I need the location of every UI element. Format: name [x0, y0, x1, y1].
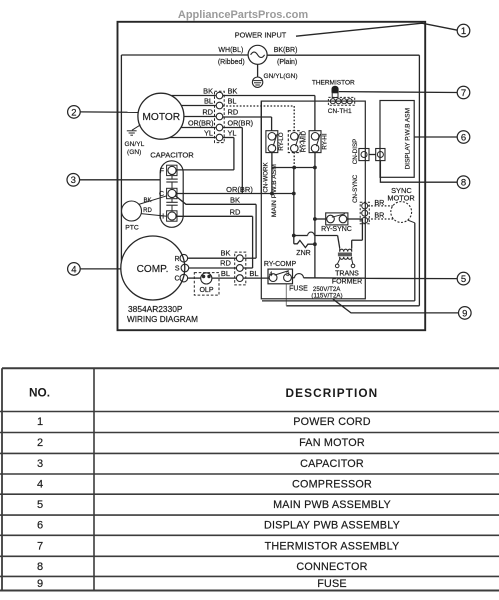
svg-text:H: H	[159, 214, 164, 221]
svg-text:CN-TH1: CN-TH1	[328, 108, 352, 115]
svg-text:FAN MOTOR: FAN MOTOR	[299, 437, 365, 449]
svg-text:ZNR: ZNR	[296, 250, 310, 257]
svg-text:BL: BL	[221, 269, 230, 278]
svg-text:AppliancePartsPros.com: AppliancePartsPros.com	[178, 9, 308, 21]
svg-text:COMP.: COMP.	[137, 264, 169, 275]
svg-text:FUSE: FUSE	[289, 285, 308, 292]
svg-text:POWER CORD: POWER CORD	[293, 416, 371, 428]
svg-text:RD: RD	[202, 107, 213, 116]
svg-text:4: 4	[71, 264, 76, 275]
svg-text:8: 8	[37, 561, 43, 573]
svg-text:CAPACITOR: CAPACITOR	[300, 458, 364, 470]
svg-text:7: 7	[461, 88, 466, 99]
svg-text:BK: BK	[143, 198, 151, 204]
svg-text:6: 6	[461, 132, 466, 143]
svg-text:MOTOR: MOTOR	[142, 112, 180, 123]
svg-text:POWER INPUT: POWER INPUT	[235, 31, 287, 40]
svg-text:4: 4	[37, 479, 43, 491]
svg-text:BR: BR	[374, 198, 384, 207]
svg-text:NO.: NO.	[29, 386, 50, 400]
svg-text:S: S	[175, 266, 180, 273]
svg-text:MAIN PWB ASSEMBLY: MAIN PWB ASSEMBLY	[273, 499, 391, 511]
svg-text:3: 3	[71, 175, 76, 186]
svg-text:FUSE: FUSE	[317, 578, 347, 590]
svg-text:R: R	[174, 256, 179, 263]
svg-text:1: 1	[461, 26, 466, 37]
svg-text:CONNECTOR: CONNECTOR	[296, 561, 367, 573]
svg-text:RD: RD	[143, 208, 152, 214]
svg-text:OR(BR): OR(BR)	[228, 118, 254, 127]
svg-text:(Plain): (Plain)	[277, 59, 297, 66]
svg-text:CN-WORK: CN-WORK	[262, 162, 269, 193]
svg-text:3854AR2330P: 3854AR2330P	[128, 304, 183, 314]
svg-text:RY-MID: RY-MID	[301, 130, 308, 152]
svg-text:GN/YL: GN/YL	[125, 141, 145, 148]
svg-text:DISPLAY PWB ASSEMBLY: DISPLAY PWB ASSEMBLY	[264, 520, 400, 532]
svg-text:PTC: PTC	[125, 225, 139, 232]
svg-text:THERMISTOR: THERMISTOR	[312, 79, 355, 86]
svg-text:F: F	[160, 168, 164, 175]
svg-text:GN/YL(GN): GN/YL(GN)	[264, 73, 298, 80]
svg-text:5: 5	[37, 499, 43, 511]
svg-text:BK: BK	[220, 249, 230, 258]
svg-text:MOTOR: MOTOR	[387, 193, 414, 202]
svg-text:RY-SYNC: RY-SYNC	[321, 226, 352, 233]
svg-text:BL: BL	[228, 96, 237, 105]
svg-text:BL: BL	[204, 96, 213, 105]
svg-text:6: 6	[37, 520, 43, 532]
svg-text:RD: RD	[228, 107, 239, 116]
svg-text:7: 7	[37, 540, 43, 552]
svg-text:BR: BR	[374, 210, 384, 219]
svg-text:CAPACITOR: CAPACITOR	[150, 150, 194, 159]
svg-text:5: 5	[461, 274, 466, 285]
svg-text:(GN): (GN)	[127, 149, 141, 156]
svg-text:YL: YL	[228, 128, 237, 137]
svg-text:OLP: OLP	[199, 287, 213, 294]
svg-text:RY-LO: RY-LO	[278, 132, 285, 150]
svg-text:BK: BK	[230, 195, 240, 204]
svg-text:3: 3	[37, 458, 43, 470]
svg-text:BK: BK	[228, 86, 238, 95]
svg-text:CN-DISP: CN-DISP	[352, 139, 359, 164]
svg-text:BK: BK	[203, 86, 213, 95]
svg-text:1: 1	[37, 416, 43, 428]
svg-text:BK(BR): BK(BR)	[274, 47, 298, 54]
svg-text:9: 9	[37, 578, 43, 590]
svg-text:9: 9	[462, 308, 467, 319]
svg-text:(115V/T2A): (115V/T2A)	[311, 293, 342, 300]
svg-text:FORMER: FORMER	[332, 278, 362, 285]
svg-text:2: 2	[71, 107, 76, 118]
svg-text:BL: BL	[249, 269, 258, 278]
svg-text:C: C	[174, 276, 179, 283]
svg-text:DESCRIPTION: DESCRIPTION	[286, 386, 379, 400]
svg-text:(Ribbed): (Ribbed)	[218, 59, 245, 66]
svg-text:RY-HI: RY-HI	[322, 133, 329, 149]
svg-text:2: 2	[37, 437, 43, 449]
svg-text:TRANS: TRANS	[335, 270, 359, 277]
svg-text:RD: RD	[230, 207, 241, 216]
svg-text:DISPLAY P.W.B ASM: DISPLAY P.W.B ASM	[404, 108, 411, 169]
svg-text:COMPRESSOR: COMPRESSOR	[292, 479, 372, 491]
svg-text:OR(BR): OR(BR)	[226, 185, 253, 194]
svg-text:RY-COMP: RY-COMP	[264, 261, 297, 268]
svg-text:WH(BL): WH(BL)	[218, 47, 243, 54]
svg-text:YL: YL	[204, 128, 213, 137]
svg-text:THERMISTOR ASSEMBLY: THERMISTOR ASSEMBLY	[265, 540, 400, 552]
svg-text:CN-SYNC: CN-SYNC	[352, 174, 359, 203]
svg-text:OR(BR): OR(BR)	[188, 118, 214, 127]
svg-text:WIRING DIAGRAM: WIRING DIAGRAM	[127, 315, 198, 324]
svg-text:RD: RD	[220, 259, 231, 268]
svg-text:8: 8	[461, 178, 466, 189]
